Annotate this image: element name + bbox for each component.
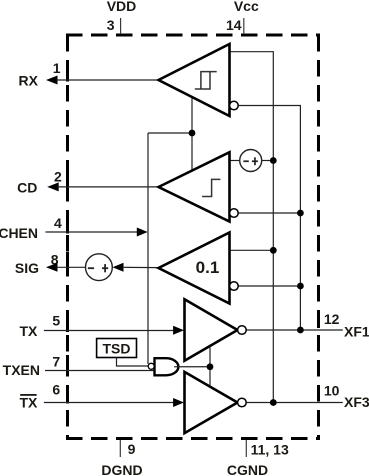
svg-text:RX: RX (19, 72, 39, 88)
step symbol in U2 (202, 179, 220, 196)
pin 14 tick (Vcc) (243, 18, 245, 34)
inverting input bubble U2 (230, 209, 239, 218)
wire amplifier U3 output to summing node S2 (123, 266, 159, 268)
wire driver U5 output to XF3 pin (246, 402, 343, 404)
comparator U2 (CD carrier detect) (159, 152, 230, 221)
SIG pin label (15, 260, 39, 276)
TXbar pin label with overline (20, 394, 39, 411)
ground CGND label (227, 462, 268, 476)
pin 3 tick (VDD) (120, 18, 122, 34)
junction driver enable (207, 363, 214, 370)
pin 4 number label (54, 215, 62, 231)
junction bus A / XF3 (270, 399, 277, 406)
pin 2 tick (CD) (66, 172, 69, 188)
pin 10 number label (324, 383, 340, 399)
pin 6 number label (52, 382, 60, 398)
wire TSD output to AND gate G1 bubble (117, 358, 149, 367)
svg-text:3: 3 (107, 17, 115, 33)
svg-text:9: 9 (128, 441, 136, 457)
pin 9 tick (DGND) (119, 440, 121, 457)
power VDD label (107, 0, 137, 14)
svg-text:14: 14 (226, 17, 242, 33)
pin 1 number label (53, 60, 61, 76)
pin 5 number label (52, 312, 60, 328)
svg-text:0.1: 0.1 (196, 258, 220, 277)
wire TX pin to driver U4 input (44, 330, 175, 332)
power Vcc label (234, 0, 259, 14)
TX input arrowhead (173, 326, 184, 335)
pin 5 tick (TX) (66, 316, 69, 332)
comparator U1 (RX receiver) (159, 44, 230, 116)
wire comparator U1 noninverting input to bus A (230, 52, 274, 403)
wire driver U4 output to XF1 pin (246, 329, 343, 331)
wire CHEN pin to enable net (46, 231, 139, 233)
pin 14 number label (226, 17, 242, 33)
svg-text:2: 2 (54, 169, 62, 185)
svg-text:TSD: TSD (103, 341, 131, 357)
wire comparator U1 inverting input to bus B (238, 106, 300, 331)
CHEN input arrowhead (137, 228, 148, 237)
AND gate G1 (155, 358, 179, 375)
pin 12 tick (XF1) (317, 314, 320, 328)
junction bus B / U3 inverting (297, 283, 304, 290)
summing node S1 (- +) (240, 150, 262, 172)
svg-text:10: 10 (324, 383, 340, 399)
svg-text:Vcc: Vcc (234, 0, 259, 14)
svg-text:TXEN: TXEN (3, 362, 40, 378)
wire TXbar pin to driver U5 input (44, 402, 175, 404)
input bubble G1 (148, 363, 154, 369)
pin 1 tick (RX) (66, 66, 69, 82)
pin 8 number label (51, 251, 59, 267)
svg-text:CGND: CGND (227, 462, 268, 476)
svg-text:11, 13: 11, 13 (251, 442, 289, 458)
RX output arrowhead (46, 76, 58, 85)
hysteresis symbol in U1 (195, 72, 217, 89)
wire SIG pin to summing node S2 (57, 266, 86, 268)
pin 3 number label (107, 17, 115, 33)
svg-text:5: 5 (52, 312, 60, 328)
svg-text:TX: TX (20, 395, 39, 411)
pin 12 number label (324, 311, 340, 327)
pin 8 tick (SIG) (66, 252, 69, 268)
svg-text:XF1: XF1 (344, 324, 369, 340)
pin 7 tick (TXEN) (66, 355, 69, 371)
pin 11,13 tick (CGND) (245, 440, 247, 457)
wire enable net vertical (147, 133, 149, 364)
svg-text:CHEN: CHEN (0, 225, 38, 241)
CD output arrowhead (47, 182, 59, 191)
junction receiver tap (189, 130, 196, 137)
svg-text:DGND: DGND (101, 462, 142, 476)
svg-text:XF3: XF3 (344, 394, 369, 410)
svg-text:6: 6 (52, 382, 60, 398)
junction bus A / S1 (270, 157, 277, 164)
wire amplifier U3 noninverting input to bus A (230, 249, 274, 251)
svg-text:12: 12 (324, 311, 340, 327)
svg-text:VDD: VDD (107, 0, 137, 14)
pin 10 tick (XF3) (317, 387, 320, 401)
driver U5 (TXbar to XF3) (185, 372, 238, 433)
wire comparator U2 noninverting input to summing node S1 (230, 160, 241, 162)
svg-text:SIG: SIG (15, 260, 39, 276)
pin 7 number label (52, 353, 60, 369)
inverting input bubble U3 (230, 282, 239, 291)
ground DGND label (101, 462, 142, 476)
wire AND gate G1 output to driver enables (174, 346, 210, 386)
TSD thermal shutdown block (97, 339, 137, 358)
wire CD pin to comparator U2 output (58, 186, 159, 188)
driver U4 (TX to XF1) (185, 299, 238, 361)
svg-text:4: 4 (54, 215, 62, 231)
pin 6 tick (TXbar) (66, 388, 69, 404)
value label 0.1 (196, 258, 220, 277)
arrowhead amplifier U3 output into summing node S2 (113, 263, 124, 272)
svg-text:CD: CD (17, 179, 37, 195)
TX pin label (20, 323, 39, 339)
inverting input bubble U1 (230, 101, 239, 110)
TXbar input arrowhead (173, 398, 184, 407)
wire amplifier U3 inverting input to bus B (238, 285, 300, 287)
svg-text:7: 7 (52, 353, 60, 369)
junction bus B / U2 inverting (297, 210, 304, 217)
TXEN pin label (3, 362, 40, 378)
junction bus A / U3 input (270, 247, 277, 254)
SIG output arrowhead (46, 263, 58, 272)
wire RX pin to comparator U1 output (57, 79, 159, 81)
junction bus B / XF1 (297, 327, 304, 334)
pin 9 number label (128, 441, 136, 457)
CHEN pin label (0, 225, 38, 241)
wire comparator U2 inverting input to bus B (238, 212, 300, 214)
wire summing node S1 to bus A junction (262, 160, 274, 162)
summing node S2 (- +) (86, 254, 113, 281)
XF1 pin label (344, 324, 369, 340)
svg-text:1: 1 (53, 60, 61, 76)
svg-text:TX: TX (20, 323, 39, 339)
XF3 pin label (344, 394, 369, 410)
wire TXEN pin to AND gate G1 input (45, 370, 155, 372)
wire enable net horizontal (148, 132, 192, 134)
wire receiver tap node to comparators (191, 97, 193, 171)
output bubble U4 (238, 326, 247, 335)
amplifier U3 gain 0.1 (159, 233, 230, 304)
IC boundary dashed box (66, 35, 320, 440)
CD pin label (17, 179, 37, 195)
RX pin label (19, 72, 39, 88)
output bubble U5 (238, 398, 247, 407)
pin 11,13 number label (251, 442, 289, 458)
pin 4 tick (CHEN) (66, 218, 69, 234)
pin 2 number label (54, 169, 62, 185)
